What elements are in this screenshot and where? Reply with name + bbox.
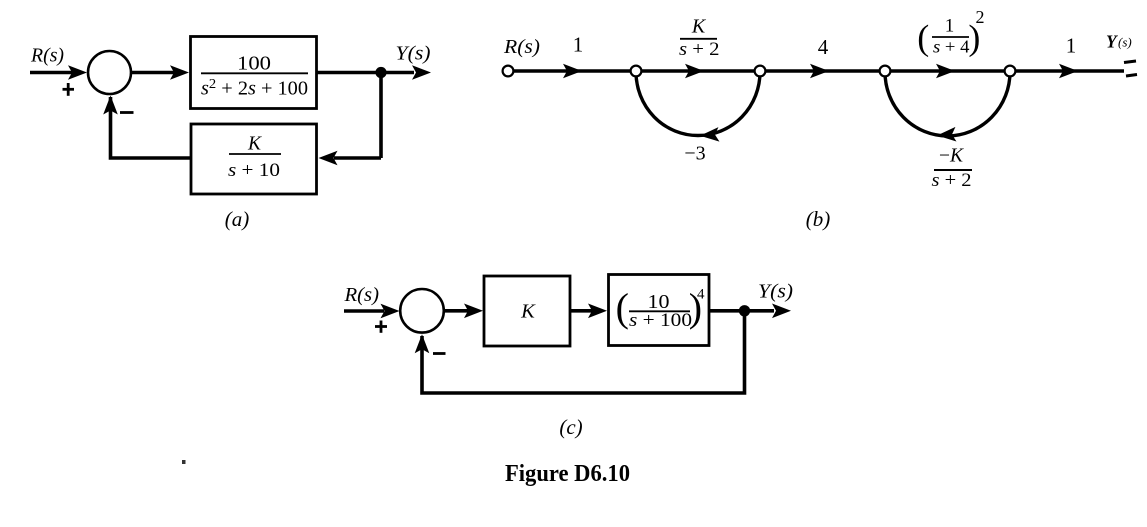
svg-text:s2 + 2s + 100: s2 + 2s + 100 (201, 77, 308, 100)
wire: summing junction to block K (c) (444, 304, 483, 319)
svg-text:s + 2: s + 2 (932, 170, 972, 191)
wire: into feedback block (a) (319, 151, 382, 166)
summing junction (a) (88, 51, 131, 94)
plus sign at summing input (a) (63, 83, 75, 96)
branch arrow gain 1 (b) (563, 64, 582, 79)
label Y(s) output (b), smudged in scan (1106, 32, 1132, 52)
svg-text:R(s): R(s) (30, 46, 64, 67)
svg-text:K: K (247, 134, 262, 155)
gain label -K/(s+2) (b) (932, 146, 973, 192)
wire: input into summing junction (c) (344, 304, 400, 319)
svg-text:4: 4 (818, 35, 829, 59)
svg-text:K: K (520, 301, 536, 323)
svg-text:−K: −K (939, 146, 964, 167)
gain label (1/(s+4))^2 (b) (917, 7, 984, 58)
svg-text:−3: −3 (684, 143, 705, 165)
svg-text:1: 1 (1066, 34, 1077, 58)
wire: feedback block around to summing junction (a) (103, 96, 191, 159)
svg-text:2: 2 (976, 7, 985, 27)
wire: input into summing junction (a) (30, 65, 87, 80)
svg-text:1: 1 (945, 15, 955, 36)
minus sign at feedback input (a) (120, 111, 134, 114)
svg-text:R(s): R(s) (343, 285, 379, 306)
svg-text:Figure D6.10: Figure D6.10 (505, 461, 630, 487)
svg-text:R(s): R(s) (503, 37, 540, 58)
stray scan speck (182, 460, 186, 464)
wire: feedback loop (c) (415, 309, 745, 393)
svg-text:1: 1 (573, 33, 584, 57)
branch arrow to output (b) (1059, 64, 1078, 79)
block K (c) (484, 276, 570, 346)
summing junction (c) (400, 289, 444, 333)
wire: summing junction to forward block (a) (132, 65, 190, 80)
scan artifact dashes at line end (b) (1124, 61, 1137, 76)
svg-text:(: ( (616, 285, 629, 330)
wire: block output to Y(s) with pickoff (c) (709, 304, 791, 319)
node 3 (b) (755, 66, 766, 77)
plus sign at summing input (c) (375, 321, 387, 333)
branch arrow gain 4 (b) (810, 64, 829, 79)
svg-text:Y(s): Y(s) (758, 282, 793, 303)
svg-text:K: K (691, 16, 707, 38)
svg-text:s + 4: s + 4 (933, 37, 970, 57)
pickoff dot (c) (739, 305, 750, 316)
block G(s) = 100/(s^2+2s+100) (a) (191, 37, 317, 109)
gain label K/(s+2) (b) (679, 16, 720, 61)
node R(s) (b) (503, 66, 514, 77)
wire: pickoff down to feedback row (a) (379, 71, 383, 158)
wire: block output to Y(s) with pickoff (a) (317, 65, 431, 80)
svg-text:4: 4 (697, 287, 705, 303)
block (10/(s+100))^4 (c) (609, 275, 710, 346)
svg-text:s + 100: s + 100 (629, 311, 692, 331)
node 5 (b) (1005, 66, 1016, 77)
svg-text:(: ( (917, 18, 929, 58)
node 2 (b) (631, 66, 642, 77)
svg-text:s + 10: s + 10 (228, 160, 280, 181)
node 4 (b) (880, 66, 891, 77)
feedback branch -K/(s+2) (b) (885, 72, 1010, 143)
svg-text:s + 2: s + 2 (679, 39, 720, 60)
block H(s) = K/(s+10) feedback (a) (191, 124, 317, 194)
svg-text:(c): (c) (559, 415, 582, 439)
pickoff dot (a) (375, 67, 386, 78)
branch arrow gain K/(s+2) (b) (685, 64, 704, 79)
svg-text:10: 10 (648, 291, 670, 313)
minus sign at feedback input (c) (433, 352, 446, 355)
feedback branch -3 (b) (636, 72, 760, 143)
svg-text:(b): (b) (806, 207, 831, 231)
branch arrow gain (1/(s+4))^2 (b) (936, 64, 955, 79)
svg-text:(s): (s) (1118, 35, 1132, 50)
svg-text:(a): (a) (225, 207, 250, 231)
svg-text:Y(s): Y(s) (396, 43, 431, 64)
svg-text:100: 100 (237, 52, 271, 74)
main signal path wire (b) (508, 69, 1124, 72)
wire: block K to block (10/(s+100))^4 (c) (570, 304, 607, 319)
